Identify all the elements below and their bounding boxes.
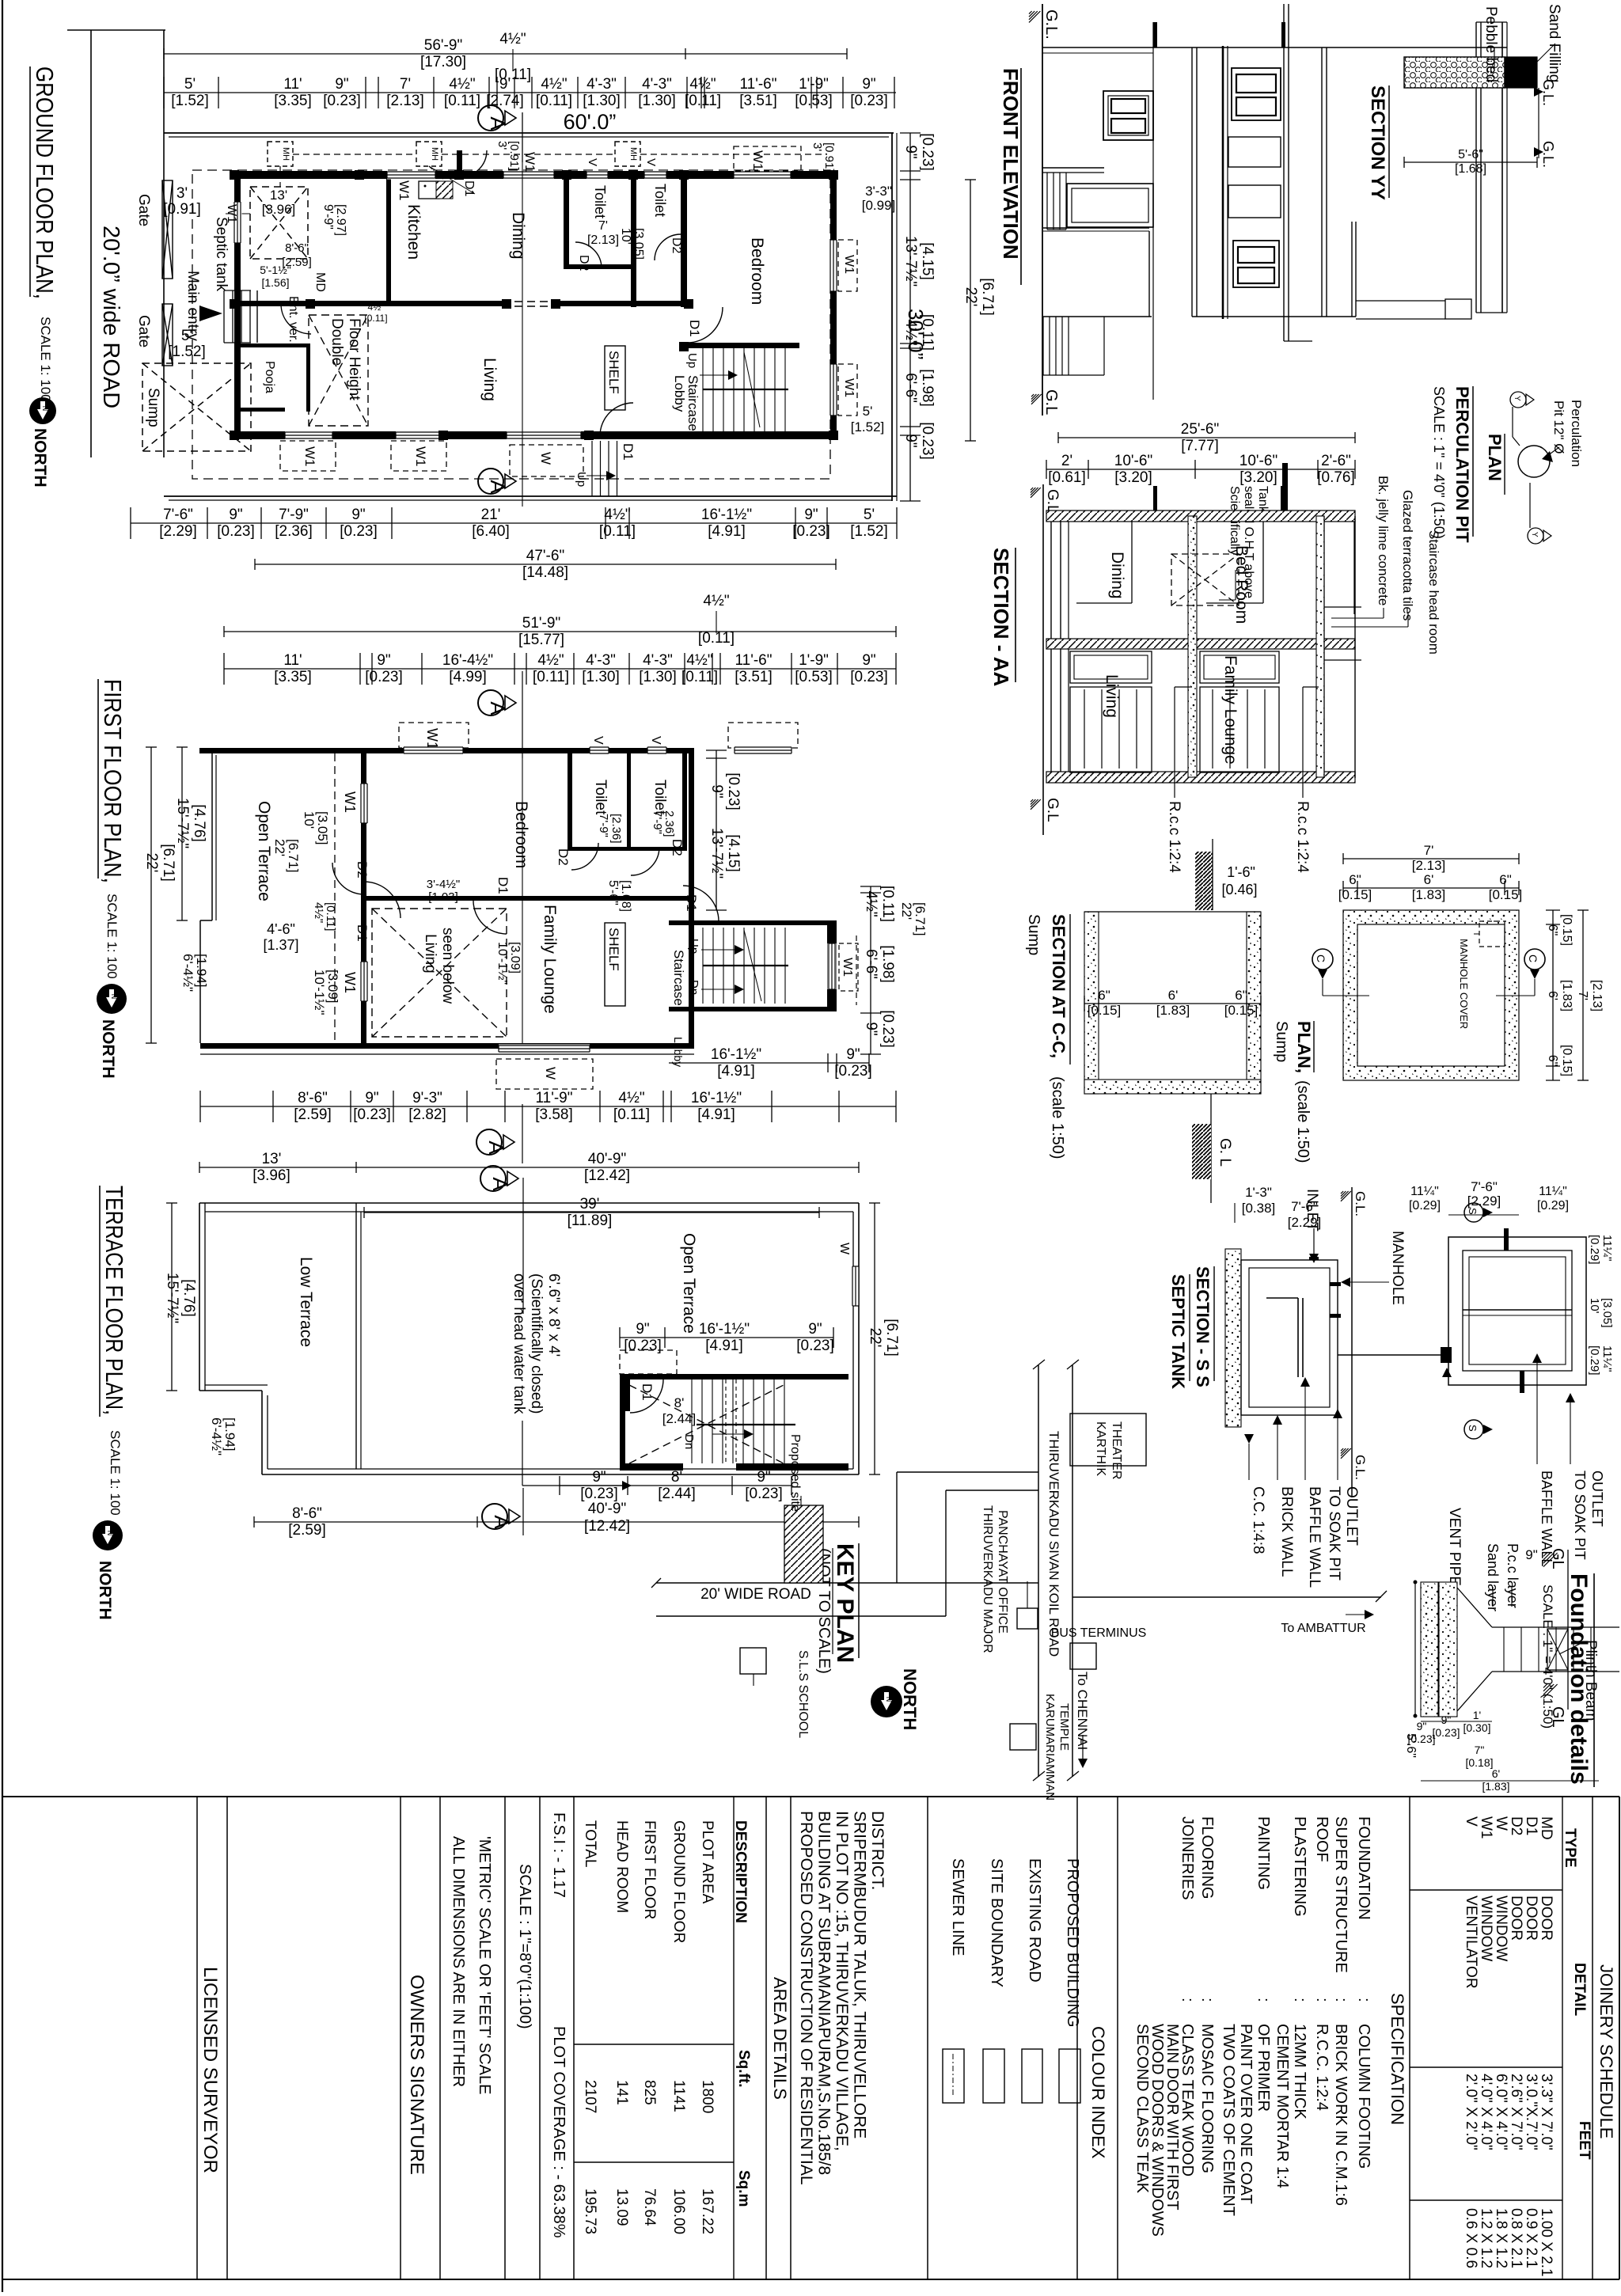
svg-text:SECTION - S S: SECTION - S S: [1193, 1266, 1213, 1387]
svg-text:COLOUR INDEX: COLOUR INDEX: [1088, 2026, 1108, 2159]
svg-text:8': 8': [671, 1469, 682, 1486]
svg-text:[0.29]: [0.29]: [1588, 1345, 1601, 1376]
SumpPlan right dims: [1552, 910, 1554, 1080]
svg-text:D2: D2: [670, 839, 685, 856]
svg-text:MH: MH: [628, 147, 638, 161]
svg-text:IN PLOT NO :15, THIRUVERKADU: IN PLOT NO :15, THIRUVERKADU VILLAGE,: [833, 1811, 851, 2151]
svg-text:SCALE 1: 100: SCALE 1: 100: [108, 1430, 123, 1516]
GF bottom dim chain: [131, 522, 897, 524]
svg-text:8'-6": 8'-6": [298, 1090, 328, 1106]
svg-text:Staircase: Staircase: [671, 950, 686, 1006]
SAA right stair part: [1323, 516, 1325, 778]
svg-text:Plinth Beam: Plinth Beam: [1582, 1640, 1599, 1721]
KP theater: [1070, 1414, 1146, 1466]
svg-text:4'-3": 4'-3": [586, 652, 616, 669]
GF plot boundary right: [891, 133, 893, 501]
svg-text:16'-1½": 16'-1½": [691, 1090, 742, 1106]
svg-text:Toilet: Toilet: [592, 780, 609, 815]
svg-text:[2.97]: [2.97]: [334, 204, 347, 236]
svg-text:13'-7½": 13'-7½": [902, 236, 919, 287]
svg-text:Living: Living: [480, 358, 499, 401]
svg-text:9": 9": [862, 76, 875, 93]
SYY pebble bar: [1404, 57, 1505, 88]
svg-text:MH: MH: [281, 147, 290, 161]
svg-text:C: C: [1527, 954, 1539, 962]
svg-text:D1: D1: [495, 877, 511, 894]
svg-text:PANCHAYAT OFFICE: PANCHAYAT OFFICE: [996, 1510, 1009, 1634]
svg-text:PROPOSED CONSTRUCTION OF RESID: PROPOSED CONSTRUCTION OF RESIDENTIAL: [797, 1811, 815, 2185]
svg-text:PLASTERING: PLASTERING: [1291, 1816, 1308, 1917]
svg-text:5'-6": 5'-6": [606, 880, 620, 905]
FF bottom wall: [200, 1043, 694, 1049]
svg-text:6'-4½": 6'-4½": [180, 954, 196, 992]
svg-text:2'-6": 2'-6": [1321, 453, 1351, 469]
svg-text:[3.05]: [3.05]: [315, 811, 330, 845]
svg-text:V: V: [649, 736, 662, 745]
svg-text:W1: W1: [397, 180, 412, 201]
svg-text:[0.11]: [0.11]: [599, 523, 636, 540]
GF entry steps: [223, 290, 225, 343]
svg-text:[0.23]: [0.23]: [1407, 1732, 1435, 1745]
TF marker A top: [480, 1166, 506, 1191]
svg-text:[0.61]: [0.61]: [1048, 469, 1086, 486]
svg-text:4½": 4½": [604, 507, 630, 523]
SAA center column: [1188, 516, 1197, 777]
svg-text:R.c.c 1:2:4: R.c.c 1:2:4: [1166, 801, 1183, 873]
GF ventilators: [587, 171, 608, 180]
svg-text:5': 5': [181, 328, 192, 344]
svg-text:[1.98]: [1.98]: [879, 945, 896, 983]
svg-text:[2.59]: [2.59]: [294, 1106, 332, 1123]
FE facade lower-left block: [1148, 231, 1150, 317]
svg-text:C.C. 1:4:8: C.C. 1:4:8: [1250, 1486, 1266, 1554]
FF dim chain top: [224, 668, 896, 670]
svg-text:6": 6": [1499, 872, 1512, 887]
svg-text:GROUND FLOOR PLAN,: GROUND FLOOR PLAN,: [31, 66, 59, 299]
svg-text:'METRIC' SCALE OR 'FEET' SCALE: 'METRIC' SCALE OR 'FEET' SCALE: [476, 1836, 493, 2094]
svg-text:10'-1½": 10'-1½": [495, 942, 509, 985]
SAA floor slab: [1046, 772, 1355, 783]
svg-text:BRICK WALL: BRICK WALL: [1278, 1486, 1295, 1577]
svg-text:6': 6': [1546, 991, 1559, 1000]
svg-text:W1: W1: [842, 378, 856, 397]
svg-text:Y: Y: [1530, 532, 1539, 537]
svg-text:9": 9": [708, 784, 725, 798]
svg-text:TOTAL: TOTAL: [582, 1820, 598, 1867]
svg-text:G.L: G.L: [1044, 489, 1061, 514]
FE roof parapets: [1475, 22, 1477, 313]
svg-text:1'-3": 1'-3": [1245, 1185, 1272, 1200]
svg-text:D2: D2: [670, 237, 683, 254]
svg-text:[4.91]: [4.91]: [708, 523, 746, 540]
svg-text:1800: 1800: [699, 2080, 716, 2113]
GF windows bottom wall: [285, 431, 332, 440]
svg-text:9": 9": [1441, 1713, 1452, 1726]
FF marker A top: [478, 690, 503, 715]
svg-text:W: W: [543, 1067, 558, 1080]
svg-text:C: C: [1315, 954, 1327, 962]
svg-text:HEAD ROOM: HEAD ROOM: [613, 1820, 630, 1913]
svg-text:4½": 4½": [863, 890, 879, 917]
svg-text:W1: W1: [302, 446, 317, 467]
svg-text:0.9 X 2.1: 0.9 X 2.1: [1523, 2208, 1539, 2268]
svg-text:Dining: Dining: [1108, 552, 1126, 599]
svg-text:[0.18]: [0.18]: [1465, 1756, 1493, 1769]
svg-text:10'-6": 10'-6": [1114, 453, 1152, 469]
FF doors left wall: [332, 863, 364, 894]
svg-text:Lobby: Lobby: [672, 375, 687, 412]
svg-text:[0.23]: [0.23]: [365, 669, 403, 685]
svg-text:[1.30]: [1.30]: [583, 93, 621, 109]
svg-text:[0.23]: [0.23]: [323, 93, 361, 109]
svg-text:W1: W1: [750, 150, 765, 171]
svg-text:GL: GL: [1549, 1706, 1566, 1728]
svg-text:4½": 4½": [537, 652, 564, 669]
FD wall: [1492, 1626, 1619, 1628]
svg-text:11¼": 11¼": [1539, 1185, 1567, 1198]
svg-text:6": 6": [1546, 1055, 1559, 1067]
GF top grand dim 56-9: [164, 53, 847, 55]
svg-text:NORTH: NORTH: [99, 1019, 117, 1079]
GF marker A top: [478, 105, 503, 131]
GF kitchen sink: [419, 181, 439, 199]
svg-text:FIRST FLOOR: FIRST FLOOR: [641, 1820, 658, 1919]
FE mid verticals: [1191, 47, 1193, 317]
FE bottom steps: [1042, 317, 1044, 375]
FF windows left wall: [361, 784, 368, 823]
svg-text:Staircase head room: Staircase head room: [1426, 530, 1441, 655]
svg-text:60'.0”: 60'.0”: [564, 110, 617, 134]
svg-text:D1: D1: [687, 320, 702, 337]
FD trapezoid: [1457, 1588, 1492, 1627]
SumpPlan C markers: [1312, 949, 1333, 970]
svg-text:22': 22': [143, 853, 160, 873]
svg-text:OUTLET: OUTLET: [1343, 1486, 1360, 1546]
svg-text:[1.83]: [1.83]: [1412, 887, 1446, 902]
svg-text:6": 6": [1098, 988, 1110, 1003]
svg-text:13'-7½": 13'-7½": [708, 828, 725, 879]
svg-text:Low Terrace: Low Terrace: [297, 1257, 315, 1347]
svg-text:[3.35]: [3.35]: [274, 93, 312, 109]
svg-text:7'-6": 7'-6": [1471, 1179, 1498, 1194]
TF stair block: [620, 1374, 848, 1379]
svg-text:SECOND CLASS TEAK: SECOND CLASS TEAK: [1133, 2024, 1151, 2194]
GF MD door: [281, 304, 311, 334]
GF manholes and sewer: [268, 142, 293, 166]
SAA lower window frames: [1070, 651, 1152, 683]
KP horizontal road: [656, 1582, 1038, 1584]
svg-text:SHELF: SHELF: [606, 928, 621, 971]
svg-text:Sand Filling: Sand Filling: [1546, 4, 1562, 82]
svg-text:4'-3": 4'-3": [643, 652, 673, 669]
svg-text:D2: D2: [1508, 1816, 1524, 1835]
svg-text:21': 21': [481, 507, 501, 523]
KP proposed site: [784, 1505, 823, 1583]
GF plot boundary top: [164, 132, 894, 134]
svg-text:W1: W1: [522, 152, 537, 173]
SAA upper windows: [1076, 602, 1132, 604]
svg-text:3'.0."X.7'.0": 3'.0."X.7'.0": [1523, 2074, 1539, 2150]
svg-text:[0.91]: [0.91]: [822, 142, 836, 173]
SAA parapet stubs: [1153, 486, 1157, 510]
FF open terrace outline: [211, 750, 213, 920]
svg-text:(scale 1:50): (scale 1:50): [1294, 1080, 1312, 1163]
svg-text:30'.0”: 30'.0”: [904, 309, 928, 359]
svg-text:MD: MD: [1538, 1816, 1555, 1840]
FE porch band window: [1067, 184, 1153, 227]
svg-text:4'-3": 4'-3": [642, 76, 672, 93]
svg-text:15'-7½": 15'-7½": [174, 798, 191, 848]
svg-text:SCALE : 1" = 4'0" (1:50): SCALE : 1" = 4'0" (1:50): [1431, 386, 1447, 539]
svg-text:7'-9": 7'-9": [597, 814, 610, 837]
FF marker A bottom: [476, 1129, 502, 1155]
FF stair bay chain: [669, 1062, 869, 1064]
svg-text:[3.05]: [3.05]: [632, 228, 645, 260]
FF D1 doors mid: [473, 901, 507, 934]
svg-text:LICENSED SURVEYOR: LICENSED SURVEYOR: [199, 1967, 221, 2173]
svg-text:3': 3': [495, 141, 509, 150]
svg-text:[0.23]: [0.23]: [725, 772, 742, 810]
svg-text:Bk. jelly lime concrete: Bk. jelly lime concrete: [1376, 476, 1391, 605]
svg-text:7': 7': [1576, 991, 1589, 1000]
svg-text::: :: [1291, 1998, 1308, 2002]
svg-text:141: 141: [613, 2080, 630, 2105]
svg-text:SPECIFICATION: SPECIFICATION: [1388, 1993, 1407, 2125]
svg-text:PAINTING: PAINTING: [1255, 1816, 1272, 1890]
FF section line: [522, 758, 523, 1043]
svg-text:[0.23]: [0.23]: [1432, 1726, 1460, 1739]
svg-text:PLAN,: PLAN,: [1294, 1021, 1314, 1073]
svg-text:[0.30]: [0.30]: [1463, 1721, 1490, 1734]
svg-text:WINDOW: WINDOW: [1493, 1896, 1509, 1961]
svg-text:6": 6": [1235, 988, 1247, 1003]
svg-text:Y: Y: [1513, 396, 1521, 401]
svg-text:1'-9": 1'-9": [799, 652, 829, 669]
svg-text:3': 3': [810, 142, 824, 151]
svg-text:DOOR: DOOR: [1508, 1896, 1524, 1941]
svg-text:TO SOAK PIT: TO SOAK PIT: [1326, 1486, 1342, 1581]
svg-text:[6.40]: [6.40]: [472, 523, 510, 540]
svg-text:JOINERIES: JOINERIES: [1179, 1816, 1196, 1900]
svg-text:7'-6": 7'-6": [163, 507, 193, 523]
FD left dim: [1414, 1582, 1416, 1716]
FF grand dim 51-9: [224, 631, 896, 632]
svg-text:4½": 4½": [449, 76, 475, 93]
svg-text:[2.13]: [2.13]: [1412, 858, 1446, 873]
svg-text:[1.52]: [1.52]: [851, 419, 885, 435]
svg-text:9": 9": [863, 1022, 879, 1035]
svg-text:[1.52]: [1.52]: [850, 523, 888, 540]
svg-text:Sump: Sump: [145, 388, 161, 427]
svg-text:TEMPLE: TEMPLE: [1057, 1703, 1071, 1751]
svg-text:OWNERS SIGNATURE: OWNERS SIGNATURE: [406, 1975, 427, 2175]
svg-text:[0.23]: [0.23]: [850, 93, 888, 109]
svg-text:7': 7': [598, 219, 608, 233]
svg-text:Tank: Tank: [1256, 486, 1270, 514]
svg-text:Perculation: Perculation: [1569, 400, 1584, 467]
svg-text:[3.09]: [3.09]: [325, 970, 340, 1004]
svg-text:[1.83]: [1.83]: [1560, 980, 1574, 1011]
FE OHT on roof: [1356, 300, 1445, 302]
svg-text:[1.83]: [1.83]: [1482, 1780, 1509, 1793]
svg-text:Sump: Sump: [1273, 1021, 1290, 1062]
svg-text:SECTION - AA: SECTION - AA: [989, 548, 1013, 686]
svg-text:NORTH: NORTH: [900, 1668, 920, 1730]
svg-text:4½": 4½": [312, 902, 325, 923]
svg-text:[0.11]: [0.11]: [879, 886, 896, 922]
svg-text:[2.29]: [2.29]: [159, 523, 197, 540]
FE window stack1 ground: [1103, 91, 1153, 140]
svg-text:7': 7': [400, 76, 411, 93]
svg-text:ALL DIMENSIONS ARE IN EITHER: ALL DIMENSIONS ARE IN EITHER: [450, 1836, 467, 2087]
svg-text:PLAN: PLAN: [1485, 434, 1505, 481]
TF north symbol: [93, 1520, 123, 1550]
SAA parapet stub right: [1282, 463, 1288, 510]
svg-text:47'-6": 47'-6": [526, 548, 564, 564]
svg-text:OUTLET: OUTLET: [1589, 1471, 1605, 1527]
svg-text:P.c.c layer: P.c.c layer: [1505, 1543, 1520, 1608]
svg-text:SCALE 1: 100: SCALE 1: 100: [104, 894, 120, 979]
svg-text:825: 825: [641, 2080, 658, 2105]
svg-text::: :: [1332, 1998, 1350, 2002]
KP school: [740, 1648, 766, 1674]
svg-text:[1.52]: [1.52]: [168, 343, 206, 360]
svg-text:W1: W1: [1478, 1816, 1494, 1839]
svg-text:DISTRICT.: DISTRICT.: [868, 1811, 886, 1890]
svg-text:CEMENT MORTAR 1:4: CEMENT MORTAR 1:4: [1274, 2024, 1291, 2188]
svg-text:195.73: 195.73: [582, 2188, 598, 2234]
svg-text:MH: MH: [430, 147, 439, 161]
svg-text:2': 2': [1061, 453, 1072, 469]
svg-text:G.L.: G.L.: [1540, 141, 1556, 168]
svg-text:Living: Living: [1103, 674, 1121, 718]
svg-text:[2.13]: [2.13]: [386, 93, 424, 109]
svg-text:9": 9": [377, 652, 390, 669]
svg-text:Pebble bed: Pebble bed: [1482, 6, 1499, 82]
svg-text:9": 9": [902, 145, 919, 158]
svg-text:[0.23]: [0.23]: [879, 1010, 896, 1048]
svg-text:[2.29]: [2.29]: [1288, 1215, 1322, 1230]
svg-text:D1: D1: [1523, 1816, 1539, 1835]
svg-text:[0.11]: [0.11]: [681, 669, 718, 685]
svg-text:11'-6": 11'-6": [740, 76, 777, 93]
svg-text:G.L: G.L: [1042, 389, 1060, 415]
svg-text:[2.29]: [2.29]: [1467, 1194, 1501, 1209]
GF toilet walls: [564, 179, 569, 268]
svg-text:[2.36]: [2.36]: [609, 814, 623, 844]
svg-text:Gate: Gate: [135, 194, 152, 226]
svg-text:[2.44]: [2.44]: [658, 1486, 696, 1502]
svg-text:[4.91]: [4.91]: [705, 1338, 743, 1354]
svg-text:[3.20]: [3.20]: [1114, 469, 1152, 486]
svg-text:11'-9": 11'-9": [536, 1090, 573, 1106]
svg-text:V: V: [1463, 1816, 1479, 1827]
svg-text:[0.23]: [0.23]: [217, 523, 255, 540]
svg-text:BUILDING AT SUBRAMANIAPURAM,S.: BUILDING AT SUBRAMANIAPURAM,S.No.185/8: [815, 1811, 833, 2175]
svg-text:[0.23]: [0.23]: [919, 133, 936, 171]
svg-text:2.36]: 2.36]: [662, 810, 676, 837]
svg-text:10'-1½": 10'-1½": [312, 970, 327, 1015]
svg-text:FIRST FLOOR PLAN,: FIRST FLOOR PLAN,: [99, 679, 127, 883]
svg-text:106.00: 106.00: [670, 2188, 687, 2234]
svg-text:Pooja: Pooja: [263, 361, 276, 393]
SumpPlan box: [1343, 910, 1519, 1080]
svg-text:6'-6": 6'-6": [902, 373, 919, 403]
svg-text:[0.23]: [0.23]: [745, 1486, 783, 1502]
GF toilet1 D2: [575, 242, 602, 268]
FF shelf: [605, 923, 625, 1006]
svg-text:4½": 4½": [618, 1090, 644, 1106]
svg-text:[12.42]: [12.42]: [584, 1167, 630, 1184]
FF window W bottom: [499, 1045, 590, 1053]
svg-text:W1: W1: [842, 255, 856, 274]
svg-text:[0.29]: [0.29]: [1409, 1199, 1441, 1213]
svg-text:16'-1½": 16'-1½": [701, 507, 752, 523]
svg-text:[4.15]: [4.15]: [725, 834, 742, 872]
svg-text:G.L: G.L: [1044, 798, 1061, 822]
GF septic tank: [250, 187, 308, 259]
svg-text:V: V: [591, 736, 605, 745]
svg-text:To AMBATTUR: To AMBATTUR: [1281, 1622, 1365, 1635]
svg-text:1'-9": 1'-9": [799, 76, 829, 93]
svg-text:9": 9": [757, 1469, 770, 1486]
FE GL line: [1042, 4, 1043, 416]
svg-text:DOOR: DOOR: [1523, 1896, 1539, 1941]
svg-text:7': 7': [1424, 843, 1434, 858]
svg-text:[0.11]: [0.11]: [444, 93, 480, 109]
svg-text:WINDOW: WINDOW: [1478, 1896, 1494, 1961]
svg-text:[15.77]: [15.77]: [518, 632, 564, 648]
svg-text:KEY PLAN: KEY PLAN: [832, 1543, 858, 1663]
svg-text:[0.29]: [0.29]: [1537, 1199, 1569, 1213]
svg-text:THIRUVERKADU SIVAN KOIL ROAD: THIRUVERKADU SIVAN KOIL ROAD: [1046, 1431, 1061, 1657]
GF mid wall: [241, 301, 502, 306]
svg-text:[1.98]: [1.98]: [919, 369, 936, 407]
svg-text:W1: W1: [225, 204, 238, 223]
svg-text:Sq.ft.: Sq.ft.: [735, 2050, 752, 2088]
svg-text:3': 3': [177, 185, 188, 202]
svg-text:4'.0" X 4'.0": 4'.0" X 4'.0": [1478, 2074, 1494, 2150]
svg-text:1': 1': [1473, 1709, 1481, 1721]
svg-text:V: V: [586, 158, 599, 166]
SumpPlan manhole dashed: [1479, 921, 1505, 947]
svg-text:BAFFLE WALL: BAFFLE WALL: [1306, 1486, 1323, 1588]
svg-text:[1.30]: [1.30]: [638, 93, 676, 109]
GF dining right wall / D1 jamb: [457, 150, 462, 179]
FF north symbol: [97, 984, 127, 1014]
STplan pipes: [1504, 1228, 1509, 1250]
svg-text:[3.51]: [3.51]: [739, 93, 777, 109]
svg-text:THIRUVERKADU MAJOR: THIRUVERKADU MAJOR: [981, 1505, 994, 1653]
svg-text:[6.71]: [6.71]: [160, 844, 177, 882]
FF terrace dashed line: [334, 753, 336, 1043]
FE parapet stubs: [1153, 22, 1157, 47]
svg-text:[0.15]: [0.15]: [1560, 1045, 1574, 1076]
svg-text:16'-1½": 16'-1½": [699, 1321, 750, 1338]
svg-text:[11.89]: [11.89]: [568, 1213, 613, 1229]
svg-text:CLASS TEAK WOOD: CLASS TEAK WOOD: [1179, 2024, 1196, 2176]
svg-text:[3.51]: [3.51]: [735, 669, 773, 685]
svg-text:7'-9": 7'-9": [651, 810, 664, 834]
svg-text:TERRACE FLOOR PLAN,: TERRACE FLOOR PLAN,: [101, 1186, 128, 1415]
FF V vents top: [590, 747, 609, 754]
svg-text:4'-3": 4'-3": [587, 76, 617, 93]
svg-text:6': 6': [1492, 1767, 1500, 1780]
svg-text:6": 6": [1349, 872, 1361, 887]
svg-text:Up: Up: [687, 939, 700, 954]
svg-text:16'-1½": 16'-1½": [711, 1046, 761, 1063]
FF main left wall: [361, 748, 366, 1049]
